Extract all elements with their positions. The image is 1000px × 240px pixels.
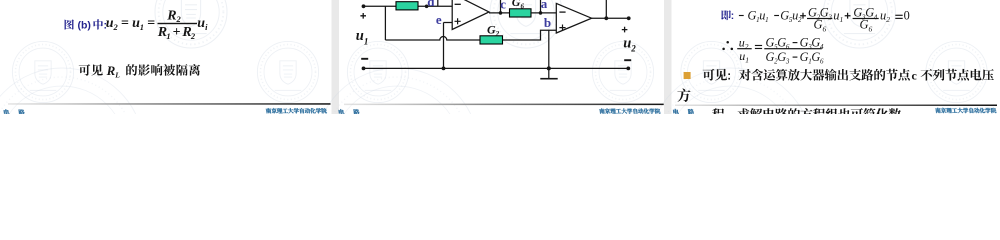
wire: vertical from e down to bottom rail (443, 23, 445, 69)
svg-text:d: d (427, 0, 435, 9)
label: - of u1 source (361, 58, 368, 60)
wire: e stub into U1 + input (444, 22, 453, 24)
node: bottom rail left terminal (362, 67, 366, 71)
wire: top input wire from u1+ to op-amp U1 inverting input (364, 5, 453, 7)
svg-text:0: 0 (904, 9, 910, 23)
svg-text:a: a (541, 0, 548, 11)
label: U2 inverting input - (559, 11, 565, 12)
svg-text:b: b (544, 15, 551, 30)
label: + of u2 (622, 27, 628, 33)
label: U2 non-inverting input + (559, 25, 565, 31)
resistor G1 (unlabeled, between u1+ and node d) (396, 2, 418, 10)
wire: G6 to U2 inverting input (531, 12, 556, 14)
svg-text:c: c (912, 68, 918, 82)
label: - of u2 (624, 59, 631, 61)
node a junction dot (539, 11, 543, 15)
node: u1 + terminal (362, 4, 366, 8)
wire: vertical from node b down through rail to ground (548, 30, 550, 78)
wire: vertical from top wire down to G2 branch (384, 6, 386, 40)
label: U1 inverting input - (455, 4, 461, 5)
wire: stub from output junction up to slide edge (605, 0, 607, 18)
wire: U1 output to node c (489, 12, 510, 14)
svg-text:R1 + R2: R1 + R2 (157, 25, 196, 41)
resistor G6 (510, 9, 532, 17)
svg-text:e: e (436, 12, 442, 27)
wire: stub from node a up to slide edge (540, 0, 542, 13)
wire: stub from node d up to slide edge (437, 0, 439, 6)
op-amp U1 triangle (452, 0, 489, 30)
svg-text:c: c (500, 0, 506, 11)
node: bottom rail right terminal (626, 67, 630, 71)
label: U1 non-inverting input + (455, 18, 461, 24)
node: U2 output junction dot (604, 16, 608, 20)
svg-text::: : (731, 11, 734, 22)
node: junction of b/ground wire with bottom rail (547, 66, 551, 70)
svg-text::: : (727, 70, 731, 82)
wire: G2 branch horizontal left segment with hop over e wire (385, 37, 480, 41)
op-amp U2 triangle (556, 3, 591, 33)
wire: bottom rail (364, 67, 629, 69)
svg-text:u2 = u1 =: u2 = u1 = (106, 16, 155, 32)
node c junction dot (499, 11, 503, 15)
label: + of u1 source (360, 13, 366, 19)
node: junction of e wire with bottom rail (442, 67, 446, 71)
wire: U2 output wire (592, 17, 629, 19)
svg-text:(b): (b) (78, 19, 91, 31)
ground symbol bar (540, 78, 557, 80)
node d junction dot (425, 5, 429, 9)
resistor G2 (480, 36, 503, 44)
wire: G2 right segment up to node b level (503, 30, 557, 40)
node: u2 + terminal (627, 16, 631, 20)
wire: stub from node c up to slide edge (500, 0, 502, 13)
